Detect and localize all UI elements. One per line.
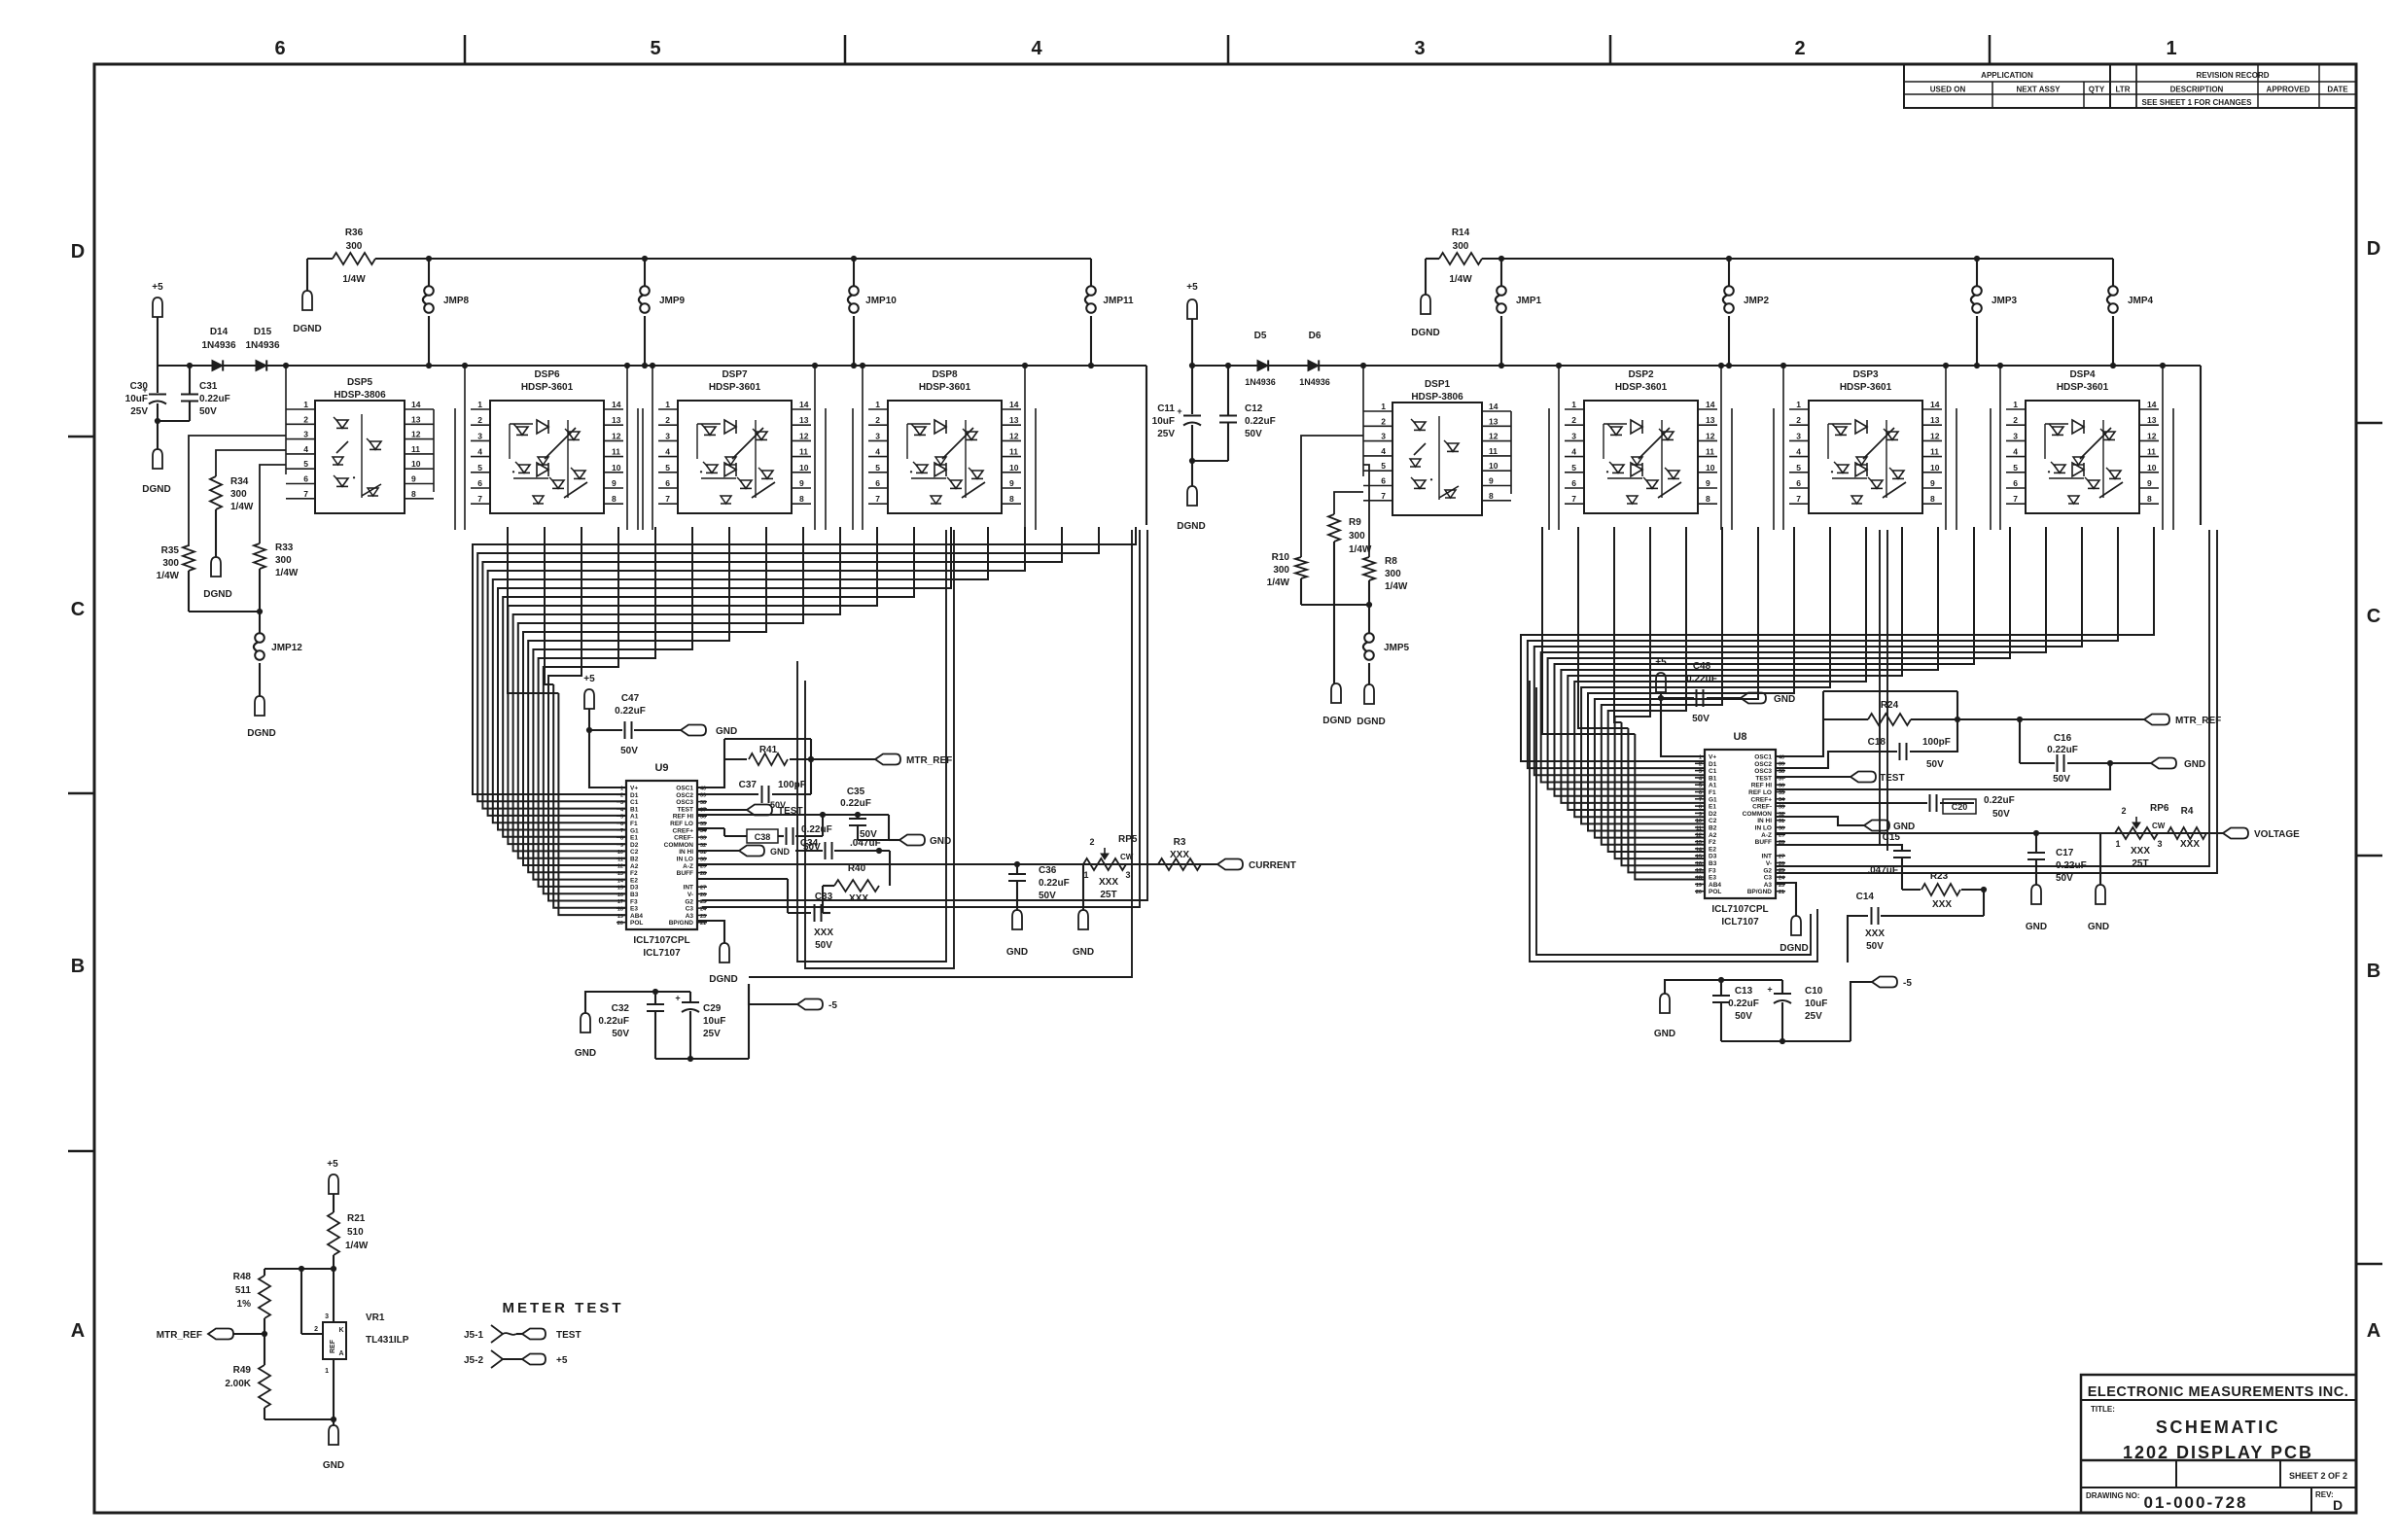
svg-text:DGND: DGND [203, 589, 231, 600]
svg-text:14: 14 [617, 878, 624, 884]
svg-text:3: 3 [1381, 432, 1386, 441]
wire rail right drop (left) [1146, 366, 1147, 525]
svg-text:JMP10: JMP10 [865, 296, 897, 306]
jumper JMP4 [2112, 259, 2114, 286]
svg-text:5: 5 [875, 463, 880, 472]
svg-text:10: 10 [1009, 463, 1019, 472]
svg-text:LTR: LTR [2116, 86, 2131, 94]
svg-text:25T: 25T [2132, 858, 2148, 869]
svg-text:35: 35 [1779, 790, 1784, 796]
svg-text:300: 300 [275, 555, 292, 566]
svg-text:9: 9 [799, 478, 804, 488]
svg-text:5: 5 [477, 463, 482, 472]
svg-text:B2: B2 [1709, 825, 1717, 832]
svg-text:DSP3: DSP3 [1852, 369, 1879, 380]
svg-text:B2: B2 [630, 857, 639, 863]
wire V+ pin to +5 [589, 730, 626, 787]
wire REF LO long [1775, 763, 2110, 789]
svg-text:GND: GND [2088, 922, 2109, 932]
svg-text:6: 6 [1796, 478, 1801, 488]
svg-text:13: 13 [1706, 415, 1715, 425]
svg-text:100pF: 100pF [1922, 737, 1951, 748]
svg-text:7: 7 [1381, 491, 1386, 501]
svg-text:50V: 50V [620, 746, 638, 756]
svg-text:COMMON: COMMON [1743, 811, 1773, 818]
svg-text:JMP2: JMP2 [1744, 296, 1770, 306]
svg-text:A: A [2367, 1320, 2380, 1342]
svg-text:BUFF: BUFF [1755, 839, 1772, 846]
svg-text:E3: E3 [630, 906, 638, 913]
svg-text:REF LO: REF LO [1748, 789, 1772, 796]
capacitor C32 [585, 992, 690, 1013]
svg-text:XXX: XXX [1932, 899, 1952, 910]
svg-text:25V: 25V [703, 1029, 721, 1039]
svg-text:B: B [2367, 961, 2380, 982]
svg-text:2: 2 [1381, 416, 1386, 426]
svg-text:50V: 50V [1926, 759, 1944, 770]
svg-text:11: 11 [1489, 446, 1498, 456]
wire +5 to C48 [1660, 692, 1662, 698]
svg-text:GND: GND [575, 1048, 596, 1059]
svg-text:XXX: XXX [849, 893, 868, 904]
svg-text:IN LO: IN LO [1755, 825, 1772, 832]
svg-text:9: 9 [1706, 478, 1710, 488]
svg-text:11: 11 [1009, 447, 1018, 457]
gnd tag below C35 [858, 839, 899, 841]
svg-text:OSC1: OSC1 [1754, 754, 1772, 761]
svg-text:V-: V- [1766, 860, 1772, 867]
svg-text:13: 13 [617, 871, 623, 877]
svg-text:14: 14 [1009, 400, 1019, 409]
capacitor C17 [2033, 830, 2038, 835]
wire K-line 1 [702, 530, 1147, 900]
svg-text:12: 12 [1706, 431, 1715, 440]
svg-text:6: 6 [620, 822, 623, 827]
wire DSP6 side buses [464, 366, 466, 530]
svg-text:27: 27 [700, 886, 706, 892]
wire to R10 [1301, 436, 1363, 557]
svg-text:XXX: XXX [1099, 877, 1118, 888]
ground GND under C36 [1012, 910, 1022, 929]
svg-text:8: 8 [1009, 494, 1014, 504]
svg-text:25: 25 [1779, 868, 1784, 874]
svg-text:11: 11 [612, 447, 620, 457]
svg-text:4: 4 [665, 447, 670, 457]
svg-text:DSP1: DSP1 [1425, 379, 1451, 390]
svg-text:C17: C17 [2056, 848, 2074, 858]
wire -5 rail (left) [749, 984, 797, 1004]
svg-text:OSC2: OSC2 [676, 792, 693, 799]
svg-text:7: 7 [2013, 494, 2018, 504]
svg-text:QTY: QTY [2089, 86, 2105, 94]
resistor R4 [2168, 827, 2206, 839]
net tag -5 (right) [1872, 977, 1897, 988]
wire U8 outer loop [1530, 681, 1817, 962]
svg-text:GND: GND [323, 1460, 344, 1471]
wire -5 rail (right) [1851, 982, 1872, 1041]
bus nest left [473, 527, 1136, 794]
capacitor C30 [157, 366, 159, 393]
svg-text:GND: GND [1073, 947, 1094, 958]
svg-text:DSP5: DSP5 [347, 377, 373, 388]
svg-text:R10: R10 [1272, 552, 1290, 563]
svg-text:300: 300 [1273, 565, 1289, 576]
svg-text:1: 1 [303, 400, 308, 409]
svg-text:ICL7107CPL: ICL7107CPL [1711, 904, 1768, 915]
wire VR1 to GND [333, 1359, 335, 1419]
svg-text:15: 15 [1696, 855, 1702, 860]
gnd tag at C16 [2151, 758, 2176, 769]
svg-text:38: 38 [700, 800, 706, 806]
svg-text:5: 5 [620, 815, 623, 821]
svg-text:2: 2 [1089, 837, 1094, 847]
ground GND at C13 [1660, 994, 1670, 1013]
svg-text:C13: C13 [1735, 986, 1753, 997]
svg-text:V+: V+ [1709, 754, 1716, 761]
svg-text:GND: GND [770, 847, 791, 857]
svg-text:R21: R21 [347, 1213, 366, 1224]
svg-text:10: 10 [411, 459, 421, 469]
svg-text:JMP4: JMP4 [2128, 296, 2154, 306]
svg-text:C48: C48 [1693, 661, 1711, 672]
capacitor C14 [1881, 915, 1984, 917]
svg-text:GND: GND [1006, 947, 1028, 958]
svg-text:SHEET 2 OF 2: SHEET 2 OF 2 [2289, 1471, 2347, 1481]
wire U9 loop right [797, 530, 946, 962]
svg-text:8: 8 [2147, 494, 2152, 504]
svg-text:DGND: DGND [247, 728, 275, 739]
svg-text:A3: A3 [686, 913, 694, 920]
svg-text:20: 20 [617, 921, 623, 927]
svg-text:3: 3 [1571, 431, 1576, 440]
svg-text:35: 35 [700, 822, 706, 827]
svg-text:10: 10 [799, 463, 809, 472]
svg-text:1/4W: 1/4W [275, 568, 299, 578]
svg-text:APPROVED: APPROVED [2267, 86, 2310, 94]
svg-text:2: 2 [665, 415, 670, 425]
svg-text:1202 DISPLAY PCB: 1202 DISPLAY PCB [2123, 1443, 2313, 1462]
svg-text:ICL7107: ICL7107 [1721, 917, 1759, 927]
svg-text:TEST: TEST [677, 806, 693, 813]
svg-text:14: 14 [1706, 400, 1715, 409]
svg-text:C2: C2 [1709, 818, 1717, 824]
svg-text:2: 2 [620, 793, 623, 799]
wire +5 to R21 [333, 1194, 335, 1212]
svg-text:C11: C11 [1157, 403, 1175, 414]
capacitor C20 [1775, 802, 1927, 804]
svg-text:7: 7 [1571, 494, 1576, 504]
svg-text:8: 8 [799, 494, 804, 504]
net tag VOLTAGE [2223, 828, 2248, 839]
svg-text:12: 12 [612, 431, 621, 440]
net tag -5 (left) [797, 999, 823, 1010]
svg-text:D: D [71, 241, 85, 262]
svg-text:BP/GND: BP/GND [1747, 889, 1773, 895]
svg-text:DATE: DATE [2327, 86, 2348, 94]
svg-text:11: 11 [799, 447, 808, 457]
wire +5 to C47 [588, 709, 590, 730]
svg-text:D1: D1 [630, 792, 639, 799]
diode D15 [256, 360, 266, 370]
svg-text:INT: INT [684, 885, 694, 892]
svg-text:C32: C32 [612, 1003, 630, 1014]
svg-text:HDSP-3601: HDSP-3601 [709, 382, 761, 393]
wire R21 junction [331, 1266, 335, 1271]
svg-text:10: 10 [1696, 819, 1702, 824]
svg-text:7: 7 [665, 494, 670, 504]
svg-text:GND: GND [1893, 822, 1915, 832]
svg-text:APPLICATION: APPLICATION [1981, 71, 2033, 80]
svg-text:R34: R34 [230, 476, 249, 487]
svg-text:IN LO: IN LO [677, 857, 693, 863]
capacitor C29 [689, 992, 691, 1001]
svg-text:C1: C1 [630, 799, 639, 806]
wire DSP5 pin3 to R35 branch [189, 436, 286, 546]
svg-text:3: 3 [1796, 431, 1801, 440]
svg-text:4: 4 [1571, 447, 1576, 457]
svg-text:5: 5 [2013, 463, 2018, 472]
svg-text:A3: A3 [1764, 882, 1773, 889]
svg-text:D3: D3 [1709, 854, 1717, 860]
svg-text:14: 14 [411, 400, 421, 409]
svg-text:1: 1 [325, 1368, 329, 1375]
svg-text:11: 11 [411, 444, 420, 454]
svg-text:E1: E1 [1709, 804, 1716, 811]
svg-text:0.22uF: 0.22uF [615, 706, 646, 717]
ground DGND under C30 [153, 449, 162, 469]
ground DGND under R36 [302, 291, 312, 310]
capacitor C33 [823, 912, 830, 914]
resistor R34 [210, 476, 222, 509]
svg-text:14: 14 [799, 400, 809, 409]
svg-text:0.22uF: 0.22uF [2056, 860, 2087, 871]
ground GND at C32 [581, 1013, 590, 1032]
svg-text:CREF-: CREF- [1752, 804, 1772, 811]
svg-text:TEST: TEST [1755, 775, 1772, 782]
svg-text:G2: G2 [685, 898, 693, 905]
svg-text:5: 5 [665, 463, 670, 472]
svg-text:R4: R4 [2181, 806, 2194, 817]
svg-text:14: 14 [2147, 400, 2157, 409]
svg-text:C18: C18 [1868, 737, 1886, 748]
svg-text:4: 4 [477, 447, 482, 457]
net tag MTR_REF (right) [2144, 715, 2169, 725]
svg-text:RP5: RP5 [1118, 834, 1138, 845]
svg-text:9: 9 [1699, 812, 1702, 818]
svg-text:13: 13 [1930, 415, 1940, 425]
svg-text:9: 9 [612, 478, 617, 488]
svg-text:-5: -5 [828, 1000, 837, 1011]
svg-text:27: 27 [1779, 855, 1784, 860]
svg-text:DSP2: DSP2 [1628, 369, 1654, 380]
svg-text:CREF+: CREF+ [673, 827, 694, 834]
svg-text:C16: C16 [2054, 733, 2072, 744]
svg-text:7: 7 [477, 494, 482, 504]
svg-text:V-: V- [687, 892, 693, 898]
svg-text:12: 12 [1009, 431, 1019, 440]
svg-text:OSC1: OSC1 [676, 786, 693, 792]
svg-text:JMP12: JMP12 [271, 643, 302, 653]
svg-text:DSP8: DSP8 [932, 369, 958, 380]
svg-text:3: 3 [1125, 870, 1130, 880]
ground GND under VR1 [329, 1425, 338, 1445]
svg-text:A: A [338, 1350, 343, 1357]
jumper JMP5 [1364, 633, 1374, 643]
svg-text:5: 5 [1381, 461, 1386, 471]
svg-text:C30: C30 [130, 381, 149, 392]
wire DSP5 left bus [285, 366, 287, 474]
wire +5 rail (right) [1192, 365, 2201, 367]
svg-text:9: 9 [2147, 478, 2152, 488]
svg-text:9: 9 [620, 843, 623, 849]
wire DSP1 right bus [1510, 411, 1512, 494]
svg-text:GND: GND [930, 836, 951, 847]
svg-text:DGND: DGND [1177, 521, 1205, 532]
svg-text:5: 5 [1796, 463, 1801, 472]
svg-text:300: 300 [162, 558, 179, 569]
wire +5 rail (left) [158, 365, 1146, 367]
svg-text:10uF: 10uF [703, 1016, 725, 1027]
svg-text:8: 8 [1930, 494, 1935, 504]
svg-text:MTR_REF: MTR_REF [906, 755, 952, 766]
wire RP6 to GND [2099, 833, 2101, 885]
svg-text:4: 4 [303, 444, 308, 454]
svg-text:23: 23 [700, 914, 706, 920]
capacitor C34 [795, 850, 823, 852]
svg-text:+5: +5 [327, 1159, 338, 1170]
svg-text:1N4936: 1N4936 [1299, 377, 1330, 387]
svg-text:ELECTRONIC MEASUREMENTS INC.: ELECTRONIC MEASUREMENTS INC. [2088, 1384, 2349, 1400]
ground DGND under U8 [1775, 883, 1796, 916]
svg-text:•: • [2048, 468, 2051, 476]
capacitor C48 [1661, 697, 1694, 699]
svg-text:34: 34 [700, 828, 707, 834]
wire REF HI to C35 [697, 814, 858, 816]
svg-text:C1: C1 [1709, 768, 1717, 775]
svg-text:16: 16 [1696, 861, 1702, 867]
svg-text:14: 14 [1489, 402, 1498, 411]
svg-text:13: 13 [1009, 415, 1019, 425]
svg-text:C37: C37 [739, 780, 758, 790]
svg-text:C20: C20 [1952, 802, 1968, 812]
svg-text:8: 8 [1699, 805, 1702, 811]
svg-text:0.22uF: 0.22uF [1686, 674, 1717, 684]
wire K-line 3 [749, 530, 1132, 977]
svg-text:25T: 25T [1100, 890, 1116, 900]
svg-text:DGND: DGND [1322, 716, 1351, 726]
svg-text:A2: A2 [1709, 832, 1717, 839]
svg-text:12: 12 [2147, 431, 2157, 440]
wire DSP1 pin7 to R9 [1334, 492, 1363, 514]
svg-text:G1: G1 [1709, 796, 1717, 803]
svg-text:12: 12 [1696, 833, 1702, 839]
wire K-line 2 [702, 530, 1140, 907]
svg-text:.047uF: .047uF [1867, 865, 1898, 876]
svg-text:50V: 50V [815, 940, 832, 951]
svg-text:0.22uF: 0.22uF [1039, 878, 1070, 889]
transistor VR1 (TL431ILP) [333, 1269, 335, 1322]
svg-text:13: 13 [1489, 416, 1498, 426]
svg-text:11: 11 [1696, 825, 1702, 831]
wire DSP2 side buses [1558, 366, 1560, 530]
svg-text:OSC3: OSC3 [1754, 768, 1772, 775]
svg-text:JMP3: JMP3 [1992, 296, 2018, 306]
svg-text:9: 9 [1009, 478, 1014, 488]
svg-text:HDSP-3601: HDSP-3601 [2057, 382, 2109, 393]
svg-text:1/4W: 1/4W [1267, 577, 1290, 588]
wire DSP3 side buses [1782, 366, 1784, 530]
svg-text:REF HI: REF HI [673, 814, 694, 821]
svg-text:6: 6 [2013, 478, 2018, 488]
svg-text:19: 19 [1696, 883, 1702, 889]
svg-text:50V: 50V [1039, 891, 1056, 901]
svg-text:XXX: XXX [2180, 839, 2200, 850]
svg-text:•: • [910, 468, 913, 476]
svg-text:CW: CW [1120, 853, 1134, 861]
svg-text:3: 3 [1414, 38, 1425, 59]
resistor R14 [1425, 259, 1427, 295]
svg-text:5: 5 [303, 459, 308, 469]
svg-text:38: 38 [1779, 769, 1784, 775]
svg-text:R3: R3 [1174, 837, 1186, 848]
svg-text:6: 6 [1699, 790, 1702, 796]
svg-text:D5: D5 [1254, 331, 1267, 341]
svg-text:+5: +5 [1186, 282, 1198, 293]
svg-text:D3: D3 [630, 885, 639, 892]
svg-text:12: 12 [799, 431, 809, 440]
svg-text:13: 13 [1696, 840, 1702, 846]
wire DSP5 pin4 to R34 branch [216, 450, 286, 476]
svg-text:1/4W: 1/4W [345, 1241, 369, 1251]
net tag MTR_REF [875, 754, 900, 765]
svg-text:2: 2 [477, 415, 482, 425]
svg-text:10uF: 10uF [1152, 416, 1175, 427]
jumper JMP10 [851, 256, 856, 261]
wire main voltage line [1775, 832, 2223, 834]
svg-text:0.22uF: 0.22uF [801, 824, 832, 835]
svg-text:JMP8: JMP8 [443, 296, 470, 306]
svg-text:10: 10 [1930, 463, 1940, 472]
svg-text:13: 13 [411, 414, 421, 424]
svg-text:300: 300 [1453, 241, 1469, 252]
jumper JMP12 [255, 633, 264, 643]
svg-text:POL: POL [1709, 889, 1721, 895]
ground GND under RP5 [1078, 910, 1088, 929]
jumper JMP3 [1974, 256, 1979, 261]
svg-text:E2: E2 [630, 877, 638, 884]
svg-text:B1: B1 [630, 806, 639, 813]
diode D14 [212, 360, 223, 370]
svg-text:C31: C31 [199, 381, 218, 392]
svg-text:3: 3 [875, 431, 880, 440]
svg-text:18: 18 [1696, 876, 1702, 882]
svg-text:GND: GND [2184, 759, 2205, 770]
svg-text:DESCRIPTION: DESCRIPTION [2170, 86, 2224, 94]
svg-text:6: 6 [477, 478, 482, 488]
svg-text:DGND: DGND [293, 324, 321, 334]
svg-text:39: 39 [1779, 762, 1784, 768]
svg-text:REF LO: REF LO [670, 821, 693, 827]
wire +5 to rail (right) [1191, 319, 1193, 366]
capacitor C31 [187, 363, 192, 367]
svg-text:D: D [2333, 1497, 2343, 1513]
wire MTR_REF [811, 758, 875, 760]
svg-text:31: 31 [1779, 819, 1784, 824]
svg-text:MTR_REF: MTR_REF [2175, 716, 2221, 726]
svg-text:7: 7 [1699, 797, 1702, 803]
ground DGND under R34 [211, 557, 221, 577]
svg-text:2: 2 [1794, 38, 1805, 59]
